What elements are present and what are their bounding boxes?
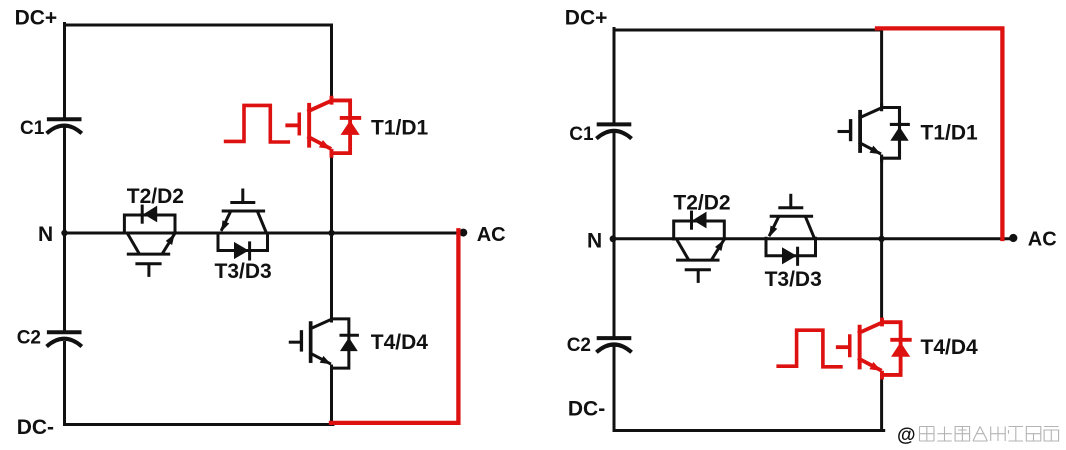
svg-text:N: N — [587, 229, 602, 252]
svg-text:T4/D4: T4/D4 — [371, 331, 429, 354]
svg-text:DC-: DC- — [568, 398, 605, 421]
svg-text:T4/D4: T4/D4 — [921, 336, 979, 359]
svg-text:AC: AC — [1028, 229, 1057, 251]
svg-text:N: N — [38, 223, 53, 246]
svg-text:T2/D2: T2/D2 — [127, 185, 184, 208]
svg-text:T3/D3: T3/D3 — [765, 268, 822, 291]
svg-text:C2: C2 — [17, 327, 41, 348]
svg-text:C1: C1 — [20, 118, 45, 139]
svg-text:T1/D1: T1/D1 — [921, 121, 979, 144]
svg-text:T2/D2: T2/D2 — [673, 192, 730, 215]
svg-text:C1: C1 — [569, 124, 594, 145]
svg-text:DC+: DC+ — [565, 7, 608, 30]
svg-text:C2: C2 — [567, 335, 591, 356]
svg-text:DC+: DC+ — [15, 7, 58, 30]
svg-text:DC-: DC- — [17, 416, 54, 439]
svg-text:T3/D3: T3/D3 — [215, 260, 272, 283]
svg-text:@: @ — [897, 425, 916, 446]
svg-text:T1/D1: T1/D1 — [371, 116, 429, 139]
svg-text:AC: AC — [477, 224, 506, 246]
